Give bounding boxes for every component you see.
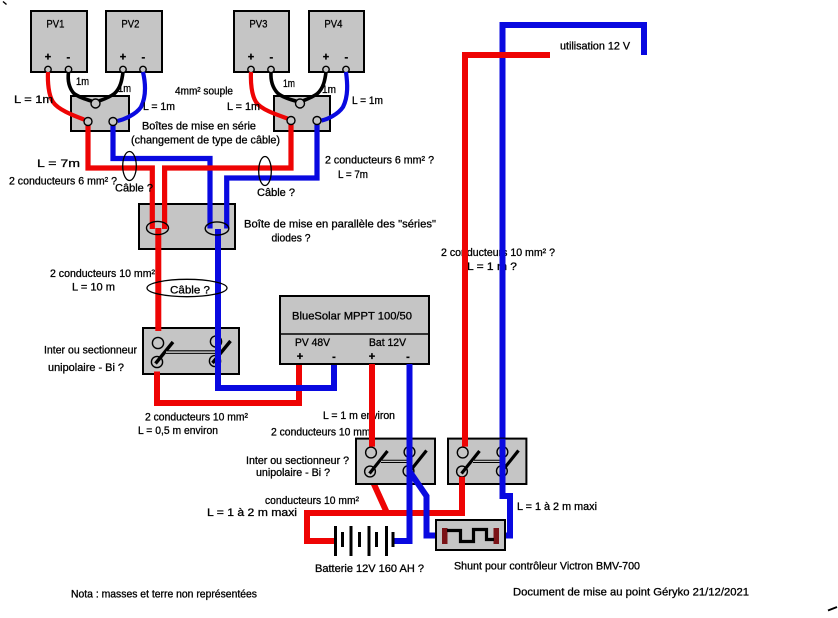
wire red diagonal SW2a bottom to battery line [371,477,388,515]
shunt terminal block left [442,528,448,544]
svg-text:L = 1m: L = 1m [143,101,175,113]
wire black PV2+ to box A top [97,72,124,102]
switch box SW2a (bottom left) [356,439,435,484]
wire red battery+ net (SW2a to battery, SW2b to battery) [307,477,462,541]
svg-text:1m: 1m [283,78,295,90]
svg-text:utilisation 12 V: utilisation 12 V [560,41,631,53]
terminal PV4+ [323,66,329,72]
wire blue box B to parallel box [227,125,317,229]
shunt resistance zigzag [447,530,494,542]
grommet left of parallel box [147,221,169,234]
svg-text:Boîtes de mise en série: Boîtes de mise en série [142,121,256,133]
svg-text:-: - [332,351,336,363]
stray mark bottom-right [828,607,837,611]
svg-text:PV3: PV3 [249,18,267,30]
battery cell bar long 4 [385,526,388,556]
svg-text:L = 1 à 2 m maxi: L = 1 à 2 m maxi [517,501,597,513]
wire red into SW2b top (over box edge) [462,438,468,447]
svg-text:L = 1 m environ: L = 1 m environ [323,410,395,422]
battery cell bar long 1 [334,526,337,556]
svg-text:L = 10 m: L = 10 m [72,282,115,294]
terminal PV4- [343,66,349,72]
svg-text:2 conducteurs 6 mm² ?: 2 conducteurs 6 mm² ? [9,176,117,188]
SW1 terminal right-bottom [209,355,220,366]
PV panel PV3 [234,11,289,72]
svg-text:Bat 12V: Bat 12V [369,337,407,349]
svg-text:L = 7m: L = 7m [37,158,80,170]
PV panel PV1 [31,11,87,72]
terminal bottom-right box B [313,117,321,125]
svg-text:L = 7m: L = 7m [338,169,368,181]
wire blue parallel box output down, to MPPT PV- [218,229,334,388]
wire black PV1- to box A top [68,72,94,102]
wire red MPPT Bat+ down to switch SW2a [369,364,375,447]
SW2b terminal right-top [497,447,508,458]
SW2a terminal left-top [366,447,377,458]
stray mark top-left [3,2,7,5]
svg-text:2 conducteurs 10 mm² ?: 2 conducteurs 10 mm² ? [441,247,555,259]
SW2a right blade [409,451,427,474]
terminal bottom-left box A [84,118,92,126]
svg-text:L = 1m: L = 1m [14,94,53,106]
svg-text:Câble ?: Câble ? [257,187,295,199]
svg-text:2 conducteurs 10 mm²: 2 conducteurs 10 mm² [50,268,155,280]
wire red out of SW2b bottom (over box edge) [459,477,465,486]
wire blue utilisation 12V down to shunt right [499,25,644,536]
svg-text:Inter ou sectionneur: Inter ou sectionneur [44,345,137,357]
battery cell bar short 4 [392,532,395,547]
svg-text:L = 1 m ?: L = 1 m ? [467,261,517,273]
svg-text:-: - [344,52,348,64]
battery cell bar short 1 [341,532,344,547]
SW2a terminal left-bottom [365,466,376,477]
svg-text:-: - [141,52,145,64]
terminal top box B [296,99,305,108]
SW2b terminal right-bottom [497,466,508,477]
wire blue SW2a bottom-right to shunt left [410,472,442,536]
svg-text:2 conducteurs 10 mm²: 2 conducteurs 10 mm² [145,412,248,424]
svg-text:Câble ?: Câble ? [170,285,210,297]
cable ellipse 2 [259,157,272,186]
svg-text:L = 1m: L = 1m [227,101,260,113]
SW2a terminal right-bottom [403,466,414,477]
wire red box B to parallel box [165,125,291,230]
terminal PV2- [140,66,146,72]
series junction box B (under PV3/PV4) [274,96,330,131]
wire red utilisation 12V [465,55,550,447]
svg-text:L = 1m: L = 1m [352,95,383,107]
wire red stubs into left grommet [152,203,164,229]
switch box SW1 (inter ou sectionneur) [143,328,239,374]
svg-text:L = 0,5 m environ: L = 0,5 m environ [138,425,218,437]
terminal bottom-right box A [109,118,117,126]
svg-text:+: + [369,351,375,363]
svg-text:+: + [120,52,126,64]
SW2a terminal right-top [404,447,415,458]
PV panel PV2 [106,11,162,72]
SW2a left blade [370,451,388,474]
terminal PV2+ [120,66,126,72]
wire blue stubs into right grommet [210,203,227,229]
terminal PV3+ [248,66,254,72]
wire blue MPPT Bat- down through SW2a to battery- [394,364,410,541]
switch box SW2b (bottom right) [448,439,526,484]
SW2b terminal left-bottom [457,466,468,477]
svg-text:-: - [269,52,273,64]
PV panel PV4 [309,11,364,72]
SW2b terminal left-top [457,447,468,458]
svg-text:2 conducteurs 10 mm²: 2 conducteurs 10 mm² [271,427,374,439]
svg-text:diodes ?: diodes ? [272,233,311,245]
battery cell bar short 3 [375,532,378,547]
wire black PV3- to box B top [271,72,299,102]
svg-text:Boîte de mise en parallèle des: Boîte de mise en parallèle des "séries" [244,218,436,230]
svg-text:Document de mise au point Gér: Document de mise au point Géryko 21/12/2… [513,587,749,599]
wire blue box A to parallel box [113,126,210,229]
SW2b right blade [501,451,519,474]
SW1 left blade [156,342,174,364]
svg-text:unipolaire - Bi ?: unipolaire - Bi ? [48,362,124,374]
svg-text:Shunt pour contrôleur Victron: Shunt pour contrôleur Victron BMV-700 [454,561,640,573]
terminal PV3- [268,66,274,72]
MPPT controller box [280,296,429,364]
wire blue PV2- to box A [118,72,146,121]
SW1 linkage bars [166,350,218,354]
svg-text:PV4: PV4 [324,18,342,30]
svg-text:1m: 1m [76,76,89,88]
wire red box A to parallel box [88,126,152,230]
SW2b linkage bars [473,460,502,463]
wire red SW1 to MPPT PV+ [157,364,299,403]
svg-text:PV2: PV2 [121,18,139,30]
terminal top box A [91,99,100,108]
parallel junction box [139,204,235,249]
SW1 terminal left-top [152,337,163,348]
battery cell bar long 3 [368,526,371,556]
svg-text:Nota : masses et terre non re: Nota : masses et terre non représentées [71,589,257,601]
series junction box A (under PV1/PV2) [71,96,129,131]
SW2a linkage bars [381,460,410,463]
wire blue through SW1 (over box) down to MPPT PV- [218,326,334,388]
svg-text:PV 48V: PV 48V [295,337,331,349]
battery cell bar short 2 [358,532,361,547]
wire red PV1+ to box A [48,72,84,120]
wire red into SW1 (over box edge) [155,327,161,331]
wire red parallel box output down to switch SW1 [155,228,161,337]
svg-text:+: + [297,351,303,363]
wire red PV3+ to box B [251,72,288,119]
svg-text:+: + [45,52,51,64]
svg-text:+: + [323,52,329,64]
terminal PV1+ [45,66,51,72]
SW1 right blade [213,341,231,363]
grommet right of parallel box [205,222,229,235]
svg-text:Inter ou sectionneur ?: Inter ou sectionneur ? [246,455,349,467]
svg-text:L = 1 à 2 m maxi: L = 1 à 2 m maxi [207,507,297,519]
wire blue utilisation lower part redrawn over SW2b [500,439,506,496]
cable ellipse 3 (horizontal) [147,279,227,296]
svg-text:-: - [406,351,410,363]
SW1 terminal right-top [210,336,221,347]
wire blue PV4- to box B [322,72,348,121]
terminal bottom-left box B [287,117,295,125]
svg-text:Câble ?: Câble ? [115,183,153,195]
shunt terminal block right [494,528,500,544]
wire red into SW2a (over box edge) [369,438,375,447]
svg-text:PV1: PV1 [46,18,64,30]
cable ellipse 1 [123,152,137,181]
wire black PV4+ to box B top [300,72,326,102]
terminal PV1- [65,66,71,72]
svg-text:-: - [66,52,70,64]
svg-text:1m: 1m [322,84,336,96]
svg-text:4mm² souple: 4mm² souple [175,86,233,98]
svg-text:(changement de type de câble): (changement de type de câble) [131,135,280,147]
svg-text:conducteurs 10 mm²: conducteurs 10 mm² [265,495,359,507]
SW2b left blade [462,451,480,474]
svg-text:BlueSolar MPPT 100/50: BlueSolar MPPT 100/50 [292,311,412,323]
svg-text:1m: 1m [118,83,131,95]
svg-text:unipolaire - Bi ?: unipolaire - Bi ? [256,467,330,479]
svg-text:2 conducteurs 6 mm² ?: 2 conducteurs 6 mm² ? [325,155,434,167]
svg-text:+: + [248,52,254,64]
svg-text:Batterie 12V 160 AH ?: Batterie 12V 160 AH ? [315,563,424,575]
SW1 terminal left-bottom [151,356,162,367]
battery cell bar long 2 [350,526,353,556]
shunt box [436,520,505,550]
